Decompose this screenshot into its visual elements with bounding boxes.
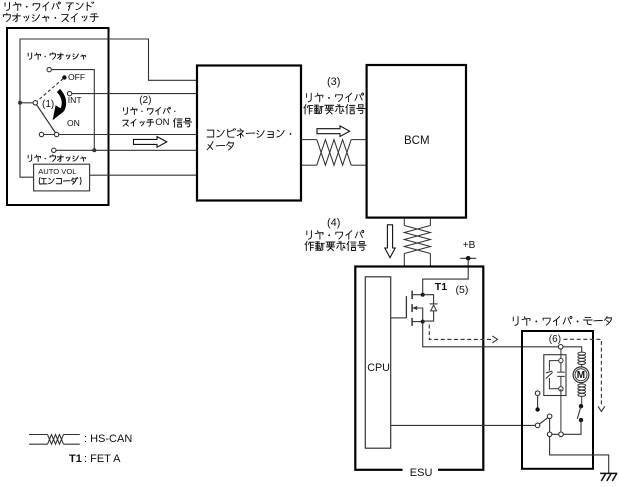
rear wiper motor box bbox=[522, 331, 593, 469]
contact circle: common bbox=[33, 101, 37, 105]
legend T1 bbox=[69, 453, 82, 465]
label +B supply bbox=[463, 240, 476, 251]
block arrow (4) down bbox=[385, 225, 395, 258]
switch blade common to ON bbox=[35, 103, 56, 135]
rotation arrow (1) bbox=[59, 91, 64, 110]
HS-CAN bus: meter to BCM (twisted pair) bbox=[301, 140, 367, 166]
label (2) rear wiper switch ON signal bbox=[124, 107, 176, 114]
title: rear wiper and washer switch bbox=[3, 2, 98, 22]
contact circle: ON left bbox=[39, 132, 43, 136]
label (2) bbox=[139, 95, 151, 106]
label (3) rear wiper operation request signal bbox=[307, 93, 364, 102]
label M motor bbox=[577, 370, 585, 381]
wire: washer top contact riser bbox=[49, 70, 94, 151]
combination meter box bbox=[197, 66, 301, 201]
label (4) rear wiper operation request signal bbox=[307, 230, 364, 239]
FET source junction bbox=[421, 320, 425, 324]
wire: washer bottom contact to combination meter bbox=[54, 149, 197, 151]
park switch blade bbox=[538, 416, 550, 425]
motor noise coil upper bbox=[578, 352, 586, 364]
FET drain junction bbox=[421, 293, 425, 297]
wire cam to bottom rail bbox=[550, 420, 581, 434]
rear wiper/washer switch unit box bbox=[7, 28, 109, 205]
ESU label with border gap bbox=[403, 464, 439, 477]
junction: common tap bbox=[18, 101, 22, 105]
label CPU bbox=[367, 362, 390, 374]
stop contact pair bbox=[537, 396, 539, 410]
terminal (6) contact circle bbox=[558, 345, 563, 350]
body diode of T1 bbox=[423, 295, 438, 321]
label (4) bbox=[327, 217, 340, 229]
wire: ON contact to combination meter bbox=[42, 134, 198, 136]
dashed rotation path from (6) bbox=[564, 339, 602, 407]
AUTO VOL encoder box bbox=[34, 164, 90, 191]
label AUTO VOL encoder bbox=[38, 168, 76, 176]
label transistor T1 bbox=[435, 282, 447, 294]
wire: INT contact to combination meter bbox=[70, 93, 197, 95]
wire: +B to FET drain bbox=[423, 258, 469, 294]
dashed drive signal arrow bbox=[429, 325, 493, 340]
label (3) bbox=[327, 76, 340, 88]
HS-CAN bus: BCM to ESU (twisted pair) bbox=[404, 218, 430, 267]
label: combination meter bbox=[207, 129, 291, 151]
label (5) bbox=[456, 285, 469, 297]
contact circle: INT bbox=[67, 91, 71, 95]
CPU box bbox=[365, 277, 390, 448]
legend HS-CAN symbol bbox=[29, 435, 80, 445]
label: rear washer (bottom) bbox=[28, 155, 86, 162]
breaker branch bbox=[549, 361, 561, 371]
capacitor/breaker sub box bbox=[544, 355, 566, 396]
contact circle: washer bottom bbox=[52, 148, 56, 152]
label: rear wiper motor bbox=[513, 316, 611, 325]
contact circle: washer top bbox=[47, 67, 51, 71]
chassis ground bbox=[600, 473, 617, 481]
wire (6) into sub box bbox=[560, 347, 562, 361]
transistor T1 (FET) bbox=[391, 291, 423, 326]
label INT position bbox=[68, 96, 82, 106]
wire sub box to bottom rail bbox=[560, 389, 562, 435]
block arrow (2) bbox=[134, 137, 167, 148]
label (6) motor terminal bbox=[549, 334, 561, 345]
BCM box bbox=[367, 65, 466, 218]
label: rear washer (top) bbox=[28, 53, 86, 60]
wire coil to cam contact bbox=[581, 396, 583, 406]
wire: FET source to wiper motor terminal (6) bbox=[423, 322, 561, 347]
block arrow (3) bbox=[317, 126, 350, 137]
ESU box bbox=[355, 267, 483, 470]
contact circle: ON right bbox=[54, 132, 58, 136]
label ON position bbox=[67, 119, 80, 129]
legend text HS-CAN bbox=[84, 433, 132, 445]
wire to ground bbox=[550, 437, 609, 474]
junction: washer wires bbox=[92, 148, 96, 152]
label OFF position bbox=[68, 73, 85, 83]
label BCM bbox=[404, 135, 430, 148]
OFF position dot bbox=[62, 75, 66, 79]
dashed blade common to OFF bbox=[35, 78, 64, 103]
wire: terminal (6) to motor coil bbox=[561, 347, 582, 352]
capacitor branch bbox=[557, 361, 565, 389]
label (1) switch rotation bbox=[42, 99, 54, 110]
sub box terminals bbox=[559, 358, 563, 362]
wire: AUTO VOL encoder to combination meter bbox=[90, 174, 197, 176]
motor noise coil lower bbox=[581, 383, 583, 384]
legend text FET A bbox=[84, 453, 120, 465]
+B supply node bbox=[460, 257, 476, 259]
label ESU bbox=[410, 467, 433, 479]
wire: switch common / encoder to combination meter (top route) bbox=[20, 39, 197, 177]
cam switch contacts bbox=[579, 404, 583, 408]
label ON in signal name bbox=[155, 118, 169, 129]
wire: CPU to motor park switch bbox=[391, 424, 538, 426]
wire: tap to common contact bbox=[20, 102, 35, 104]
motor M bbox=[573, 367, 589, 383]
